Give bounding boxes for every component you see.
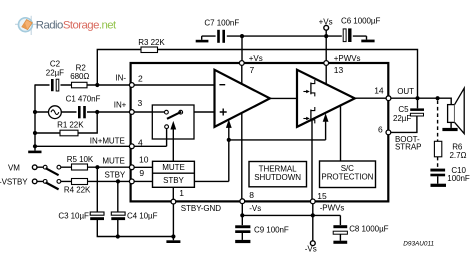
wire switch lower contact down to IN+MUTE <box>166 129 168 147</box>
svg-text:C6 1000µF: C6 1000µF <box>341 16 380 25</box>
power MOSFET symbol (lower) <box>303 107 314 123</box>
junction ground bus / R1 <box>33 131 37 135</box>
ground (input common) <box>28 151 41 154</box>
junction -Vs rail / pin8 / C9 <box>240 213 244 217</box>
resistor R4 22K <box>64 179 91 195</box>
svg-text:15: 15 <box>317 191 327 201</box>
svg-text:13: 13 <box>334 65 344 75</box>
ground (STBY-GND) <box>166 240 180 243</box>
resistor R1 22K <box>57 121 84 136</box>
op-amp A1 <box>215 70 270 127</box>
junction -Vs rail / terminal <box>311 213 315 217</box>
pin 2 <box>129 73 143 87</box>
wire OUT net pin14 to speaker <box>390 98 451 104</box>
pin 10 <box>129 155 148 170</box>
capacitor C5 22uF bootstrap <box>390 98 424 132</box>
svg-text:9: 9 <box>139 168 144 178</box>
svg-text:MUTE: MUTE <box>162 163 184 172</box>
wire bottom ground net (C3/C4 to STBY-GND) <box>97 204 173 241</box>
wire pin3 to input switch <box>132 111 152 113</box>
svg-text:100nF: 100nF <box>447 174 470 183</box>
top +Vs rail <box>202 35 367 37</box>
wire pin7 riser <box>241 36 243 62</box>
junction ground bus / IN+MUTE <box>33 144 37 148</box>
pin 8 <box>240 190 254 204</box>
svg-text:R3 22K: R3 22K <box>138 38 165 47</box>
capacitor C6 1000uF <box>341 16 380 43</box>
svg-text:-Vs: -Vs <box>249 204 261 213</box>
VSTBY input terminal <box>32 179 37 184</box>
svg-text:STRAP: STRAP <box>395 143 421 152</box>
wire MUTE net (switch to R5 to pin 10) <box>37 166 132 168</box>
capacitor C10 100nF <box>430 166 469 187</box>
-Vs supply terminal <box>305 215 317 253</box>
svg-text:22µF: 22µF <box>46 68 64 77</box>
arrow MUTE control into switch box <box>172 130 174 162</box>
arrow STBY into power stage <box>325 122 327 140</box>
pin 15 <box>310 191 327 204</box>
svg-text:7: 7 <box>250 65 255 75</box>
capacitor C1 470nF <box>66 94 101 119</box>
junction STBY control split <box>227 138 231 142</box>
+Vs supply terminal <box>319 18 333 36</box>
power MOSFET symbol (upper) <box>303 80 314 96</box>
svg-text:+PWVs: +PWVs <box>334 54 361 63</box>
switch S-stby <box>43 180 61 190</box>
resistor R2 680ohm <box>70 64 89 88</box>
resistor R5 10K <box>67 155 94 170</box>
capacitor C7 100nF <box>204 18 239 43</box>
wire C4 drop <box>117 181 119 212</box>
svg-text:STBY: STBY <box>104 171 125 180</box>
svg-text:SHUTDOWN: SHUTDOWN <box>254 173 301 182</box>
svg-text:-PWVs: -PWVs <box>320 204 345 213</box>
pin 1 <box>171 188 184 204</box>
VM input terminal <box>32 165 37 170</box>
ground (C6 side) <box>366 36 368 40</box>
junction STBY-GND node <box>171 234 175 238</box>
bottom -Vs rail <box>242 204 340 216</box>
wire feedback net R3: IN- node up, across, down to OUT <box>97 50 417 99</box>
junction +Vs rail / terminal <box>324 34 328 38</box>
capacitor C3 10uF <box>58 211 104 220</box>
svg-text:R1 22K: R1 22K <box>57 121 84 130</box>
svg-text:STBY: STBY <box>163 176 184 185</box>
svg-text:C8 1000µF: C8 1000µF <box>349 225 388 234</box>
AC signal source <box>49 106 62 119</box>
svg-text:D93AU011: D93AU011 <box>403 240 434 247</box>
junction C4 / bottom ground wire <box>116 234 120 238</box>
pin 6 <box>378 125 391 135</box>
svg-text:2.7Ω: 2.7Ω <box>450 151 467 160</box>
junction IN- / R3 node <box>95 83 99 87</box>
wire pin2 to op-amp inverting input <box>132 84 215 86</box>
resistor R6 2.7ohm <box>434 141 466 160</box>
svg-text:RadioStorage.net: RadioStorage.net <box>36 20 117 32</box>
svg-text:R5 10K: R5 10K <box>67 155 94 164</box>
capacitor C9 100nF <box>235 215 289 243</box>
pin 14 <box>374 85 391 100</box>
svg-text:C7 100nF: C7 100nF <box>204 18 239 27</box>
junction STBY / C4 <box>116 179 120 183</box>
svg-text:1: 1 <box>179 188 184 198</box>
junction MUTE / C3 <box>95 165 99 169</box>
arrow STBY into op-amp1 <box>228 128 230 140</box>
pin 9 <box>129 168 144 184</box>
svg-text:C2: C2 <box>50 60 61 69</box>
wire STBY net (switch to R4 to pin 9) <box>37 180 132 182</box>
THERMAL SHUTDOWN block <box>249 162 307 187</box>
svg-text:OUT: OUT <box>397 87 414 96</box>
capacitor C2 22uF <box>46 60 64 93</box>
pin 4 <box>129 137 143 148</box>
svg-text:C3 10µF: C3 10µF <box>58 211 89 220</box>
dashed link OUT to R6 zobel <box>437 100 439 141</box>
input mute switch box <box>152 105 194 139</box>
junction ground bus / source <box>33 110 37 114</box>
svg-text:22µF: 22µF <box>393 114 411 123</box>
svg-text:2: 2 <box>138 73 143 83</box>
svg-text:PROTECTION: PROTECTION <box>321 173 373 182</box>
capacitor C8 1000uF <box>333 215 388 243</box>
svg-text:3: 3 <box>138 98 143 108</box>
wire pin9 to STBY block <box>132 180 153 182</box>
S/C PROTECTION block <box>320 161 376 188</box>
wire +Vs power line pin7 through op-amp1 to pin8 <box>241 64 243 200</box>
wire C3 drop <box>96 167 98 212</box>
svg-text:IN-: IN- <box>115 73 126 82</box>
wire IN+MUTE net (bus to pin 4 and switch lower contact) <box>35 145 167 147</box>
svg-text:14: 14 <box>374 85 384 95</box>
svg-text:MUTE: MUTE <box>102 157 124 166</box>
wire power stage to S/C protection <box>340 106 342 161</box>
junction IN+ / R1 node <box>95 110 99 114</box>
wire op-amp1 output to power stage input <box>270 97 297 99</box>
wire +PWVs power line pin13 into power stage <box>325 64 327 84</box>
logo RadioStorage.net <box>15 16 117 35</box>
svg-text:10: 10 <box>139 155 149 165</box>
svg-text:-Vs: -Vs <box>305 245 317 254</box>
pin 7 <box>239 61 254 76</box>
wire switch to op-amp non-inverting input <box>194 111 215 113</box>
speaker load <box>442 88 464 133</box>
svg-text:C4 10µF: C4 10µF <box>127 211 158 220</box>
wire IN+ net (source/C1 to pin 3) <box>35 111 132 113</box>
switch S-mute <box>43 165 61 175</box>
svg-text:680Ω: 680Ω <box>70 72 89 81</box>
op-amp A2 power stage <box>297 70 355 127</box>
ground (C7 side) <box>201 36 203 40</box>
wire IN- net (C2/R2 to pin 2, with ground-bus corner) <box>35 84 132 86</box>
pin 13 <box>324 61 344 76</box>
wire MUTE/STBY block to pin1 <box>172 187 174 200</box>
junction OUT / zobel <box>436 96 440 100</box>
capacitor C4 10uF <box>111 211 157 220</box>
MUTE / STBY block <box>153 161 195 187</box>
wire pin13 riser <box>325 36 327 62</box>
svg-text:4: 4 <box>138 137 143 147</box>
IC U1 body <box>131 63 389 201</box>
wire ground bus (left) <box>34 84 36 150</box>
wire pin10 to MUTE block <box>132 166 153 168</box>
resistor R3 22K <box>138 38 165 52</box>
svg-text:IN+MUTE: IN+MUTE <box>90 136 125 145</box>
svg-text:IN+: IN+ <box>114 100 127 109</box>
svg-text:R4 22K: R4 22K <box>64 185 91 194</box>
svg-text:C1 470nF: C1 470nF <box>66 94 101 103</box>
junction OUT / feedback / C5 <box>415 96 419 100</box>
junction +Vs rail / pin7 riser <box>240 34 244 38</box>
svg-text:+Vs: +Vs <box>319 18 333 27</box>
pin 3 <box>129 98 142 114</box>
svg-text:VM: VM <box>8 164 20 173</box>
svg-text:6: 6 <box>378 125 383 135</box>
svg-text:+Vs: +Vs <box>249 54 263 63</box>
wire power stage to pin15 <box>311 120 313 200</box>
svg-text:-VSTBY: -VSTBY <box>0 178 28 187</box>
svg-text:C9 100nF: C9 100nF <box>254 225 289 234</box>
wire power stage output to pin14 <box>355 97 387 99</box>
svg-text:STBY-GND: STBY-GND <box>181 204 221 213</box>
svg-text:C5: C5 <box>398 105 409 114</box>
wire R1 branch (bus to R1 to IN+ node) <box>35 112 97 133</box>
dashed link R6 to C10 <box>437 157 439 169</box>
wire STBY control net to both amp stages <box>194 140 325 182</box>
svg-text:8: 8 <box>249 190 254 200</box>
